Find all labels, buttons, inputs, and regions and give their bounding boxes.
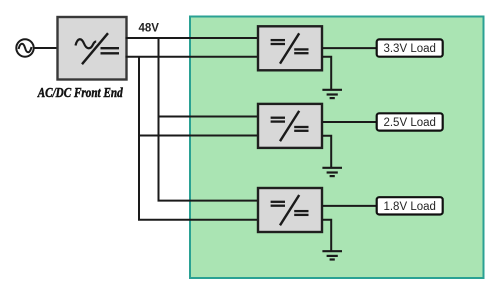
wire U4 return to ground xyxy=(322,220,331,251)
svg-text:3.3V Load: 3.3V Load xyxy=(383,43,435,55)
wire source to AC/DC xyxy=(34,47,58,49)
DC/DC converter U4 (1.8V) xyxy=(258,188,322,232)
ground U2 xyxy=(322,90,342,98)
load box 2.5V xyxy=(377,113,443,130)
DC/DC converter U2 (3.3V) xyxy=(258,26,322,70)
intermediate bus region (green highlight box) xyxy=(190,17,484,279)
wire branch + to U3 top input xyxy=(159,116,260,118)
svg-text:2.5V Load: 2.5V Load xyxy=(383,117,435,129)
wire branch - to U3 bottom input xyxy=(139,135,259,137)
wire vertical bus + drop to U4 top input xyxy=(159,38,260,201)
wire U2 return to ground xyxy=(322,57,331,89)
svg-text:48V: 48V xyxy=(139,23,160,35)
load box 1.8V xyxy=(377,197,443,214)
wire U3 return to ground xyxy=(322,136,331,168)
wire 48V bus top (U1 out+ to U2 in) xyxy=(126,37,260,39)
wire U3 output to 2.5V load xyxy=(322,121,377,123)
svg-text:1.8V Load: 1.8V Load xyxy=(383,201,435,213)
wire U2 output to 3.3V load xyxy=(322,47,377,49)
AC source V1 xyxy=(16,39,33,56)
ground U3 xyxy=(322,168,342,176)
svg-text:AC/DC Front End: AC/DC Front End xyxy=(37,86,124,101)
wire U4 output to 1.8V load xyxy=(322,205,377,207)
AC/DC Front End converter U1 xyxy=(58,17,127,80)
ground U4 xyxy=(322,251,342,259)
wire vertical bus - drop to U4 bottom input xyxy=(139,57,259,220)
load box 3.3V xyxy=(377,39,443,56)
wire bus return (U1 out- to U2 in) xyxy=(126,56,260,58)
DC/DC converter U3 (2.5V) xyxy=(258,104,322,148)
